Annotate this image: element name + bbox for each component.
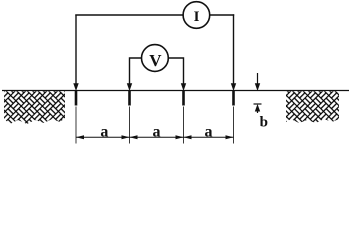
svg-text:I: I (194, 9, 200, 25)
extension line at C2 (233, 107, 235, 144)
wire: right current lead vertical (233, 14, 235, 88)
electrode C1 arrowhead (73, 83, 78, 91)
electrode C2 arrowhead (231, 83, 236, 91)
wire: top horizontal to ammeter (75, 14, 183, 16)
dimension arrow left of span1 (76, 135, 84, 139)
svg-text:a: a (153, 123, 161, 140)
extension line at P1 (129, 107, 131, 144)
svg-text:b: b (260, 114, 268, 130)
earth hatch left (4, 91, 65, 124)
electrode C1 rod (75, 91, 78, 106)
svg-text:a: a (100, 123, 108, 140)
dimension b tick (254, 103, 262, 105)
extension line at C1 (75, 107, 77, 144)
svg-text:V: V (149, 51, 162, 70)
extension line at P2 (183, 107, 185, 144)
earth hatch right (286, 91, 339, 123)
dimension arrow right of span3 (226, 135, 234, 139)
wire: left current lead vertical (75, 15, 77, 89)
ammeter I (183, 2, 210, 29)
dimension arrow left of span3 (184, 135, 192, 139)
dimension arrow right of span2 (176, 135, 184, 139)
voltmeter V (142, 45, 169, 72)
electrode P2 rod (182, 91, 185, 106)
wire: voltmeter left lead (130, 58, 142, 88)
electrode P1 arrowhead (127, 83, 132, 91)
dimension arrow left of span2 (130, 135, 138, 139)
wire: voltmeter right lead (168, 58, 183, 88)
electrode P2 arrowhead (181, 83, 186, 91)
earth surface line (2, 90, 349, 92)
dimension arrow right of span1 (122, 135, 130, 139)
dimension b upper arrow (257, 73, 259, 86)
dimension b lower arrow (255, 104, 260, 112)
wire: ammeter to right corner (210, 14, 235, 16)
dimension line a spans (76, 136, 234, 138)
electrode C2 rod (232, 91, 235, 106)
electrode P1 rod (128, 91, 131, 106)
svg-text:a: a (205, 123, 213, 140)
